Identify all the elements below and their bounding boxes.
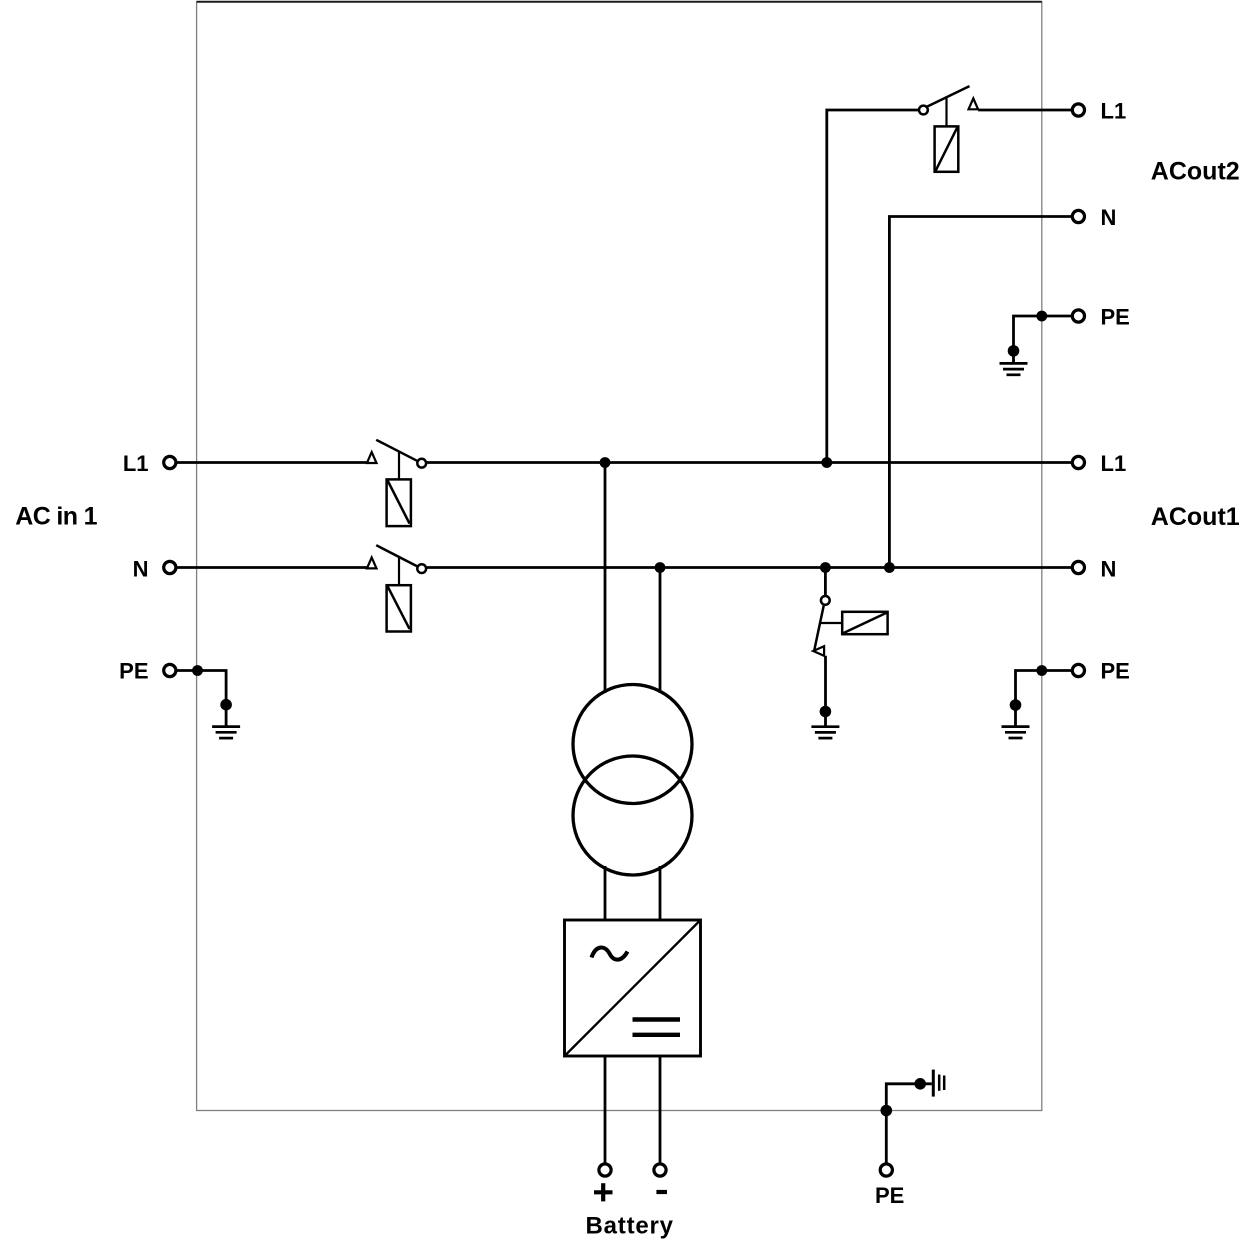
- transformer T1 secondary winding: [573, 756, 692, 875]
- switch K4 pivot contact (ground relay): [821, 596, 830, 605]
- node: ACout1 PE at enclosure boundary: [1036, 665, 1047, 676]
- wire: transformer secondary to inverter AC side (right): [659, 866, 662, 920]
- node: N to transformer junction: [655, 562, 666, 573]
- switch K2 blade (N input): [376, 545, 422, 568]
- terminal: ACout1 PE: [1072, 664, 1084, 676]
- node: ground relay earth connection point: [820, 706, 832, 718]
- switch K2 pivot contact (N input): [417, 564, 426, 573]
- switch K4 fixed contact arrow (ground relay): [813, 646, 824, 656]
- relay coil K3 link wire: [945, 97, 947, 126]
- relay coil K4 (ground relay): [842, 612, 887, 634]
- node: chassis PE at enclosure boundary: [881, 1105, 893, 1117]
- switch K3 blade (ACout2 relay): [926, 86, 969, 107]
- svg-text:L1: L1: [123, 451, 149, 476]
- terminal: AC in PE: [164, 664, 176, 676]
- wire: inverter DC plus to battery terminal: [604, 1056, 607, 1164]
- wire: AC in N terminal to switch K2: [177, 566, 368, 569]
- svg-text:L1: L1: [1101, 98, 1127, 123]
- relay coil K1 (L1 input relay): [387, 479, 411, 526]
- switch K4 blade (ground relay): [814, 605, 824, 650]
- earth ground symbol (ACout2 PE): [1000, 363, 1028, 374]
- relay coil K4 link wire: [820, 622, 842, 624]
- enclosure boundary: [197, 2, 1042, 1111]
- wire: ACout2 PE terminal to earth: [1014, 316, 1072, 363]
- wire: ACout2 N terminal to N bus: [889, 217, 1071, 568]
- terminal: battery minus: [654, 1164, 666, 1176]
- wire: N bus from switch K2 to ACout1 N terminal: [426, 566, 1072, 569]
- switch K1 fixed contact arrow (L1 input): [367, 452, 377, 463]
- svg-text:N: N: [133, 557, 149, 582]
- svg-text:PE: PE: [119, 658, 148, 683]
- relay coil K2 link wire: [398, 557, 400, 585]
- inverter/charger U1 box: [565, 920, 701, 1056]
- wire: ground relay to earth: [824, 656, 827, 727]
- wire: inverter DC minus to battery terminal: [659, 1056, 662, 1164]
- node: ACout2 PE at enclosure boundary: [1036, 311, 1047, 322]
- chassis ground symbol: [933, 1070, 944, 1097]
- label: battery plus sign: [594, 1183, 613, 1201]
- terminal: ACout2 PE: [1072, 310, 1084, 322]
- node: ACout1 PE earth connection point: [1010, 699, 1022, 711]
- wire: N bus down to transformer primary: [659, 568, 662, 694]
- node: PE in earth connection point: [220, 699, 232, 711]
- node: PE in at enclosure boundary: [192, 665, 203, 676]
- wire: N bus down to ground relay K4: [824, 568, 827, 597]
- node: N to ACout2 junction: [884, 562, 895, 573]
- switch K2 fixed contact arrow (N input): [367, 558, 377, 569]
- svg-text:N: N: [1101, 205, 1117, 230]
- node: L1 to transformer junction: [600, 457, 611, 468]
- wire: switch K3 to ACout2 L1 terminal: [978, 109, 1072, 112]
- svg-text:AC in 1: AC in 1: [15, 503, 97, 531]
- wire: L1 bus from switch K1 to ACout1 L1 terminal: [426, 461, 1072, 464]
- svg-text:PE: PE: [1101, 304, 1130, 329]
- wire: ACout2 L1 riser from L1 bus to relay K3: [827, 110, 919, 463]
- transformer T1 primary winding: [573, 685, 692, 804]
- wire: transformer secondary to inverter AC side (left): [604, 866, 607, 920]
- svg-text:Battery: Battery: [586, 1213, 674, 1240]
- earth ground symbol (ground relay): [811, 727, 839, 738]
- terminal: ACout2 N: [1072, 210, 1084, 222]
- relay coil K3 (ACout2 relay): [935, 126, 959, 171]
- switch K3 fixed contact arrow (ACout2): [969, 98, 979, 109]
- relay coil K1 link wire: [398, 452, 400, 480]
- svg-text:ACout2: ACout2: [1151, 158, 1240, 186]
- node: chassis bond connection point: [914, 1078, 926, 1090]
- terminal: ACout1 L1: [1072, 456, 1084, 468]
- terminal: AC in L1: [164, 456, 176, 468]
- switch K1 blade (L1 input): [376, 440, 422, 463]
- switch K3 pivot contact (ACout2 relay): [919, 106, 928, 115]
- wire: ACout1 PE terminal to earth: [1016, 671, 1072, 727]
- svg-text:L1: L1: [1101, 451, 1127, 476]
- terminal: ACout2 L1: [1072, 104, 1084, 116]
- wire: AC in PE terminal to earth: [177, 671, 227, 727]
- svg-text:ACout1: ACout1: [1151, 503, 1240, 531]
- svg-text:N: N: [1101, 557, 1117, 582]
- node: ACout2 PE earth connection point: [1008, 345, 1020, 357]
- node: L1 to ACout2 relay junction: [821, 457, 832, 468]
- node: N to ground relay junction: [820, 562, 831, 573]
- terminal: chassis PE (bottom): [880, 1164, 892, 1176]
- earth ground symbol (AC in PE): [212, 727, 240, 739]
- svg-text:PE: PE: [1101, 658, 1130, 683]
- relay coil K2 (N input relay): [387, 585, 411, 631]
- svg-text:PE: PE: [875, 1183, 904, 1208]
- inverter/charger U1 divider diagonal: [565, 920, 701, 1056]
- terminal: AC in N: [164, 561, 176, 573]
- earth ground symbol (ACout1 PE): [1002, 727, 1030, 738]
- wire: AC in L1 terminal to switch K1: [177, 461, 368, 464]
- terminal: battery plus: [599, 1164, 611, 1176]
- inverter/charger U1 AC symbol (sine): [592, 948, 628, 960]
- wire: chassis PE terminal riser: [886, 1084, 932, 1164]
- label: battery minus sign: [656, 1190, 667, 1194]
- terminal: ACout1 N: [1072, 561, 1084, 573]
- switch K1 pivot contact (L1 input): [417, 459, 426, 468]
- wire: L1 bus down to transformer primary: [604, 463, 607, 694]
- inverter/charger U1 DC symbol (double bar): [633, 1020, 681, 1035]
